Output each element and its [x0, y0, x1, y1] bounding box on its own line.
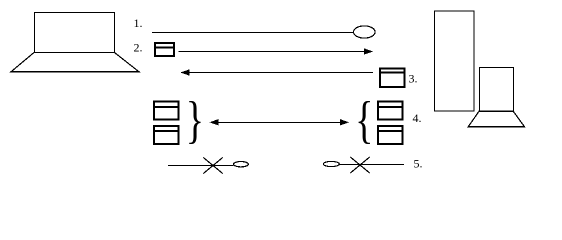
wire: step 5 right line [339, 164, 404, 166]
client laptop screen [35, 13, 115, 53]
ellipse terminator step 5 right [323, 161, 339, 166]
packet stack right lower [377, 126, 404, 144]
svg-text:}: } [186, 90, 204, 148]
wire: step 1 line [152, 32, 354, 34]
svg-text:2.: 2. [134, 41, 143, 55]
svg-text:{: { [355, 90, 373, 148]
wire: step 5 left line [168, 165, 234, 167]
svg-text:3.: 3. [409, 72, 418, 86]
ellipse terminator step 1 [354, 26, 376, 38]
wire: step 3 arrow left [181, 69, 374, 75]
svg-text:5.: 5. [414, 157, 423, 171]
wire: step 2 arrow right [179, 48, 374, 54]
svg-text:4.: 4. [413, 111, 422, 125]
X mark left [203, 158, 222, 174]
client laptop base [11, 53, 139, 72]
svg-text:1.: 1. [134, 16, 143, 30]
packet stack left lower [153, 126, 180, 144]
X mark right [350, 157, 369, 173]
packet icon step 3 [379, 68, 406, 87]
wire: step 4 double arrow [210, 119, 350, 125]
packet stack left upper [153, 101, 180, 119]
packet stack right upper [377, 101, 404, 119]
server laptop screen [480, 68, 514, 112]
ellipse terminator step 5 left [234, 162, 249, 167]
server laptop base [468, 111, 524, 127]
server tower [435, 11, 475, 111]
packet icon step 2 [155, 43, 175, 56]
